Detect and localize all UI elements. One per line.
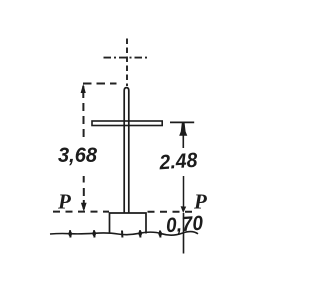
ground tick bulges bbox=[68, 231, 162, 237]
svg-text:P: P bbox=[193, 190, 207, 214]
dim 3,68: arrowhead up bbox=[81, 84, 86, 93]
cross post (vertical member, double-line outline with rounded cap) bbox=[124, 88, 129, 213]
dim 3,68: vertical dashed line lower part bbox=[83, 176, 85, 209]
dim 3,68: arrowhead down bbox=[81, 203, 87, 212]
dim 2.48: upper shaft bbox=[182, 134, 184, 148]
dim 2.48: arrow up (thick hand-drawn) bbox=[179, 123, 187, 136]
centerline vertical (dashed, above cross top) bbox=[126, 39, 128, 87]
ground line (wavy) bbox=[50, 232, 198, 236]
svg-text:3,68: 3,68 bbox=[58, 143, 97, 167]
svg-text:2.48: 2.48 bbox=[158, 149, 199, 175]
dim 2.48: lower shaft bbox=[183, 176, 185, 207]
svg-text:P: P bbox=[57, 190, 71, 214]
centerline horizontal (dash-dot) bbox=[104, 57, 150, 59]
ground ticks bbox=[70, 230, 160, 237]
dim 0,70: shaft below P-line through ground bbox=[183, 213, 185, 254]
dim 3,68: top extension dashed line bbox=[83, 83, 117, 85]
P-line dashed left bbox=[53, 211, 109, 213]
P-line dashed right bbox=[148, 211, 195, 213]
dim 2.48: top tick bar bbox=[170, 121, 194, 123]
foundation block bbox=[110, 213, 147, 234]
cross arm (horizontal member, double-line outline) bbox=[92, 121, 162, 126]
dim 2.48: arrowhead down bbox=[181, 206, 187, 213]
dim 3,68: vertical dashed line upper part bbox=[82, 86, 84, 137]
svg-text:0,70: 0,70 bbox=[165, 212, 204, 238]
